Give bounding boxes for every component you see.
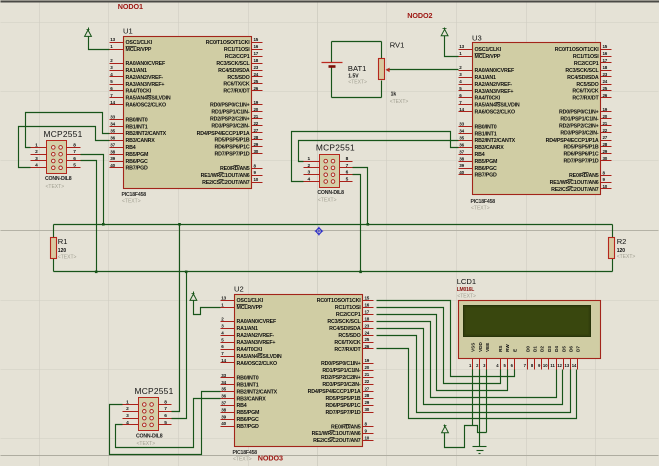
- svg-text:20: 20: [603, 114, 608, 119]
- svg-text:LM016L: LM016L: [457, 287, 475, 293]
- svg-text:R1: R1: [58, 237, 68, 246]
- svg-text:37: 37: [459, 149, 464, 154]
- svg-text:RD2/PSP2/C2IN+: RD2/PSP2/C2IN+: [210, 117, 250, 123]
- ground symbol: [473, 447, 487, 454]
- svg-text:U2: U2: [234, 285, 244, 294]
- wire junction: [102, 223, 105, 226]
- svg-text:25: 25: [254, 79, 259, 84]
- BAT1 value label 1.5V: [348, 73, 359, 79]
- svg-text:14: 14: [221, 358, 226, 363]
- svg-text:RD6/PSP6/P1C: RD6/PSP6/P1C: [215, 145, 250, 151]
- CAN transceiver MCP2551 #1 (CONN-DIL8): [31, 129, 83, 190]
- wire R2 top lead: [612, 225, 614, 238]
- svg-text:RB2/INT2/CANTX: RB2/INT2/CANTX: [237, 389, 278, 395]
- wire VCC to U2 MCLR: [194, 301, 221, 315]
- svg-text:RD2/PSP2/C2IN+: RD2/PSP2/C2IN+: [559, 124, 599, 130]
- svg-text:8: 8: [164, 399, 167, 405]
- svg-text:7: 7: [164, 406, 167, 412]
- svg-text:10: 10: [365, 435, 370, 440]
- svg-text:RC2/CCP1: RC2/CCP1: [574, 61, 599, 67]
- node label NODO1: [118, 2, 143, 11]
- svg-text:1.5V: 1.5V: [348, 73, 359, 79]
- svg-text:RB3/CANRX: RB3/CANRX: [126, 138, 156, 144]
- svg-text:<TEXT>: <TEXT>: [617, 254, 636, 260]
- microcontroller U3 PIC18F458: [459, 33, 612, 211]
- svg-text:RD5/PSP5/P1B: RD5/PSP5/P1B: [326, 396, 361, 402]
- svg-text:PIC18F458: PIC18F458: [471, 199, 496, 205]
- svg-text:3: 3: [307, 170, 310, 176]
- svg-text:14: 14: [459, 107, 464, 112]
- svg-text:RD7/PSP7/P1D: RD7/PSP7/P1D: [564, 159, 599, 165]
- svg-text:RA6/OSC2/CLKO: RA6/OSC2/CLKO: [126, 103, 166, 109]
- svg-text:7: 7: [346, 163, 349, 169]
- svg-text:<TEXT>: <TEXT>: [471, 206, 490, 212]
- svg-text:120: 120: [617, 248, 626, 254]
- svg-text:2: 2: [307, 163, 310, 169]
- svg-text:RD3/PSP3/C2IN-: RD3/PSP3/C2IN-: [322, 382, 361, 388]
- svg-text:CONN-DIL8: CONN-DIL8: [136, 433, 163, 439]
- svg-text:35: 35: [221, 387, 226, 392]
- svg-text:40: 40: [221, 421, 226, 426]
- wire CAN bus rail CANL: [54, 271, 613, 273]
- svg-text:D3: D3: [547, 346, 552, 352]
- svg-text:RA4/T0CKI: RA4/T0CKI: [475, 96, 501, 102]
- svg-text:RD7/PSP7/P1D: RD7/PSP7/P1D: [215, 152, 250, 158]
- svg-text:OSC1/CLKI: OSC1/CLKI: [475, 47, 502, 53]
- svg-text:33: 33: [459, 122, 464, 127]
- svg-text:36: 36: [459, 142, 464, 147]
- svg-text:2: 2: [35, 149, 38, 155]
- svg-text:RA1/AN1: RA1/AN1: [475, 75, 497, 81]
- svg-text:RB1/INT1: RB1/INT1: [126, 124, 148, 130]
- wire MCP2 RXD to U3 RB3/CANRX: [292, 132, 459, 182]
- svg-text:34: 34: [459, 129, 464, 134]
- wire U2 RC0/T1OSO/T1CKI to LCD E: [377, 301, 515, 377]
- wire MCP2 CANH to bus: [353, 168, 368, 225]
- microcontroller U2 PIC18F458: [221, 285, 374, 463]
- wire MCP1 CANL to bus: [81, 161, 97, 272]
- wire U2 RC4/SDI/SDA to LCD D5: [377, 329, 563, 405]
- power symbol VCC arrow: [442, 425, 449, 433]
- wire battery negative lead: [331, 68, 333, 98]
- svg-text:RB5/PGM: RB5/PGM: [237, 410, 261, 416]
- wire CAN bus rail CANH: [54, 224, 613, 226]
- svg-text:36: 36: [221, 394, 226, 399]
- svg-text:33: 33: [221, 373, 226, 378]
- wire MCP2 CANL to bus: [353, 175, 361, 272]
- LCD display LCD1 LM016L: [459, 301, 601, 370]
- svg-text:CONN-DIL8: CONN-DIL8: [45, 176, 72, 182]
- svg-text:20: 20: [254, 107, 259, 112]
- svg-text:34: 34: [110, 122, 115, 127]
- svg-text:MCLR/VPP: MCLR/VPP: [126, 47, 152, 53]
- wire RV1 bottom lead: [381, 81, 383, 98]
- svg-text:<TEXT>: <TEXT>: [348, 80, 367, 86]
- svg-text:RB6/PGC: RB6/PGC: [237, 417, 260, 423]
- svg-text:RB0/INT0: RB0/INT0: [237, 376, 259, 382]
- svg-text:RB2/INT2/CANTX: RB2/INT2/CANTX: [126, 131, 167, 137]
- wire battery loop top: [332, 41, 382, 43]
- svg-text:38: 38: [459, 156, 464, 161]
- svg-text:RA2/AN2/VREF-: RA2/AN2/VREF-: [475, 82, 513, 88]
- svg-text:RE0/RD/AN5: RE0/RD/AN5: [220, 166, 250, 172]
- svg-text:E: E: [512, 349, 517, 352]
- svg-text:RA1/AN1: RA1/AN1: [237, 326, 259, 332]
- svg-text:22: 22: [603, 128, 608, 133]
- RV1 reference label: [390, 40, 405, 49]
- power symbol VCC arrow: [441, 28, 448, 36]
- R1 value label 120: [58, 248, 67, 254]
- wire R1 top lead: [53, 225, 55, 238]
- wire MCP1 RXD to U1 RB3/CANRX: [19, 127, 110, 168]
- wire battery positive lead: [331, 42, 333, 63]
- svg-text:RC0/T1OSO/T1CKI: RC0/T1OSO/T1CKI: [555, 47, 600, 53]
- svg-text:RE2/CS/C2OUT/AN7: RE2/CS/C2OUT/AN7: [551, 187, 599, 193]
- svg-text:7: 7: [73, 149, 76, 155]
- svg-text:14: 14: [110, 100, 115, 105]
- wire R1 bottom lead: [53, 259, 55, 272]
- svg-text:RC5/SDO: RC5/SDO: [576, 82, 598, 88]
- svg-text:16: 16: [365, 302, 370, 307]
- svg-text:RD6/PSP6/P1C: RD6/PSP6/P1C: [326, 403, 361, 409]
- svg-text:VEE: VEE: [485, 343, 490, 352]
- svg-text:29: 29: [254, 142, 259, 147]
- svg-text:6: 6: [346, 170, 349, 176]
- svg-text:RC1/T1OSI: RC1/T1OSI: [573, 54, 599, 60]
- svg-text:17: 17: [603, 58, 608, 63]
- svg-text:18: 18: [603, 65, 608, 70]
- wire junction: [359, 271, 362, 274]
- svg-text:D1: D1: [533, 346, 538, 352]
- svg-text:38: 38: [221, 408, 226, 413]
- svg-text:D6: D6: [569, 346, 574, 352]
- svg-text:RD1/PSP1/C1IN-: RD1/PSP1/C1IN-: [211, 110, 250, 116]
- wire U2 RC7/RX/DT to LCD D7: [377, 349, 577, 419]
- power symbol VCC arrow: [85, 28, 92, 37]
- svg-text:27: 27: [254, 128, 259, 133]
- svg-text:RE1/WR/C1OUT/AN6: RE1/WR/C1OUT/AN6: [201, 173, 250, 179]
- svg-text:RC0/T1OSO/T1CKI: RC0/T1OSO/T1CKI: [317, 298, 362, 304]
- svg-text:RA1/AN1: RA1/AN1: [126, 68, 148, 74]
- wire MCP3 TXD to U2 RB2/CANTX: [110, 392, 221, 455]
- svg-text:30: 30: [603, 156, 608, 161]
- svg-text:RC6/TX/CK: RC6/TX/CK: [223, 82, 250, 88]
- svg-text:RC1/T1OSI: RC1/T1OSI: [224, 47, 250, 53]
- svg-text:RB4: RB4: [237, 403, 247, 409]
- wire MCP3 CANL to bus: [172, 272, 187, 419]
- svg-text:RB3/CANRX: RB3/CANRX: [475, 145, 505, 151]
- svg-text:24: 24: [603, 79, 608, 84]
- svg-text:OSC1/CLKI: OSC1/CLKI: [126, 40, 153, 46]
- svg-text:BAT1: BAT1: [348, 64, 366, 73]
- svg-text:RB2/INT2/CANTX: RB2/INT2/CANTX: [475, 138, 516, 144]
- svg-text:23: 23: [365, 323, 370, 328]
- wire junction: [185, 271, 188, 274]
- svg-text:RA4/T0CKI: RA4/T0CKI: [237, 347, 263, 353]
- svg-text:OSC1/CLKI: OSC1/CLKI: [237, 298, 264, 304]
- svg-text:RA4/T0CKI: RA4/T0CKI: [126, 89, 152, 95]
- svg-text:18: 18: [365, 316, 370, 321]
- svg-text:RD4/PSP4/ECCP1/P1A: RD4/PSP4/ECCP1/P1A: [308, 389, 361, 395]
- svg-text:<TEXT>: <TEXT>: [457, 294, 476, 300]
- svg-text:13: 13: [221, 295, 226, 300]
- svg-text:RD0/PSP0/C1IN+: RD0/PSP0/C1IN+: [559, 110, 599, 116]
- svg-text:RA2/AN2/VREF-: RA2/AN2/VREF-: [126, 75, 164, 81]
- svg-text:MCP2551: MCP2551: [135, 386, 174, 396]
- svg-text:15: 15: [254, 37, 259, 42]
- wire U2 RC2/CCP1 to LCD RW: [377, 315, 508, 391]
- svg-text:RE2/CS/C2OUT/AN7: RE2/CS/C2OUT/AN7: [202, 180, 250, 186]
- RV1 text label: [390, 99, 409, 105]
- svg-text:26: 26: [603, 93, 608, 98]
- svg-text:RC3/SCK/SCL: RC3/SCK/SCL: [327, 319, 361, 325]
- svg-text:25: 25: [365, 337, 370, 342]
- svg-text:22: 22: [254, 121, 259, 126]
- svg-text:21: 21: [365, 372, 370, 377]
- R1 text label: [58, 254, 77, 260]
- svg-text:18: 18: [254, 58, 259, 63]
- svg-text:RB5/PGM: RB5/PGM: [475, 159, 499, 165]
- svg-text:RB1/INT1: RB1/INT1: [237, 383, 259, 389]
- svg-text:RD4/PSP4/ECCP1/P1A: RD4/PSP4/ECCP1/P1A: [197, 131, 250, 137]
- svg-text:22: 22: [365, 379, 370, 384]
- svg-text:D7: D7: [576, 346, 581, 352]
- svg-text:RC7/RX/DT: RC7/RX/DT: [223, 89, 250, 95]
- svg-text:RB7/PGD: RB7/PGD: [475, 173, 498, 179]
- svg-text:14: 14: [572, 363, 577, 368]
- wire junction: [367, 223, 370, 226]
- svg-text:U1: U1: [123, 26, 133, 35]
- BAT1 text label: [348, 80, 367, 86]
- svg-text:11: 11: [550, 363, 555, 368]
- svg-text:RD4/PSP4/ECCP1/P1A: RD4/PSP4/ECCP1/P1A: [546, 138, 599, 144]
- svg-text:28: 28: [365, 393, 370, 398]
- svg-text:26: 26: [254, 86, 259, 91]
- svg-text:1k: 1k: [391, 92, 397, 98]
- svg-text:RD0/PSP0/C1IN+: RD0/PSP0/C1IN+: [321, 361, 361, 367]
- svg-text:RE1/WR/C1OUT/AN6: RE1/WR/C1OUT/AN6: [550, 180, 599, 186]
- svg-text:39: 39: [221, 414, 226, 419]
- svg-text:RD6/PSP6/P1C: RD6/PSP6/P1C: [564, 152, 599, 158]
- svg-text:MCP2551: MCP2551: [316, 143, 355, 153]
- svg-text:29: 29: [603, 149, 608, 154]
- svg-text:RS: RS: [498, 346, 503, 352]
- svg-text:RD7/PSP7/P1D: RD7/PSP7/P1D: [326, 410, 361, 416]
- battery BAT1: [322, 63, 343, 67]
- svg-text:RD5/PSP5/P1B: RD5/PSP5/P1B: [215, 138, 250, 144]
- svg-text:<TEXT>: <TEXT>: [318, 198, 337, 204]
- R2 value label 120: [617, 248, 626, 254]
- svg-text:6: 6: [73, 156, 76, 162]
- wire U2 RC5/SDO to LCD D6: [377, 336, 571, 413]
- svg-text:8: 8: [346, 156, 349, 162]
- BAT1 reference label: [348, 64, 366, 73]
- svg-text:25: 25: [603, 86, 608, 91]
- svg-text:27: 27: [365, 386, 370, 391]
- svg-text:RA5/AN4/SS/LVDIN: RA5/AN4/SS/LVDIN: [475, 103, 520, 109]
- svg-text:RC2/CCP1: RC2/CCP1: [336, 312, 361, 318]
- svg-text:RB1/INT1: RB1/INT1: [475, 131, 497, 137]
- svg-text:36: 36: [110, 135, 115, 140]
- svg-text:CONN-DIL8: CONN-DIL8: [317, 190, 344, 196]
- svg-text:40: 40: [110, 163, 115, 168]
- wire VCC to U1 MCLR: [89, 37, 110, 50]
- svg-text:RV1: RV1: [390, 40, 405, 49]
- svg-text:26: 26: [365, 344, 370, 349]
- wire LCD VSS down: [472, 370, 474, 426]
- svg-text:RA3/AN3/VREF+: RA3/AN3/VREF+: [237, 340, 276, 346]
- svg-text:4: 4: [307, 176, 310, 182]
- svg-text:RA6/OSC2/CLKO: RA6/OSC2/CLKO: [237, 361, 277, 367]
- wire MCP3 RXD to U2 RB3/CANRX: [116, 399, 221, 448]
- wire VCC to U3 MCLR: [445, 36, 459, 57]
- svg-text:13: 13: [459, 44, 464, 49]
- svg-text:RC6/TX/CK: RC6/TX/CK: [334, 340, 361, 346]
- svg-text:15: 15: [365, 295, 370, 300]
- LCD1 reference label: [457, 277, 476, 286]
- CAN transceiver MCP2551 #3 (CONN-DIL8): [123, 386, 174, 447]
- svg-text:4: 4: [35, 163, 38, 169]
- wire MCP2 TXD to U3 RB2/CANTX: [299, 141, 459, 162]
- svg-text:VSS: VSS: [471, 343, 476, 352]
- svg-text:27: 27: [603, 135, 608, 140]
- R1 reference label: [58, 237, 68, 246]
- svg-text:23: 23: [254, 65, 259, 70]
- svg-text:39: 39: [110, 156, 115, 161]
- svg-text:RW: RW: [505, 344, 510, 352]
- svg-text:RC4/SDI/SDA: RC4/SDI/SDA: [567, 75, 599, 81]
- svg-text:1: 1: [35, 142, 38, 148]
- svg-text:RE1/WR/C1OUT/AN6: RE1/WR/C1OUT/AN6: [312, 431, 361, 437]
- svg-text:RB7/PGD: RB7/PGD: [126, 166, 149, 172]
- svg-text:RC0/T1OSO/T1CKI: RC0/T1OSO/T1CKI: [206, 40, 251, 46]
- svg-text:PIC18F458: PIC18F458: [122, 192, 147, 198]
- svg-text:5: 5: [73, 163, 76, 169]
- svg-text:16: 16: [254, 44, 259, 49]
- svg-text:D0: D0: [525, 346, 530, 352]
- svg-text:VDD: VDD: [478, 342, 483, 352]
- svg-text:RC1/T1OSI: RC1/T1OSI: [335, 305, 361, 311]
- svg-text:D4: D4: [554, 346, 559, 352]
- svg-text:R2: R2: [617, 237, 627, 246]
- svg-text:RB5/PGM: RB5/PGM: [126, 152, 150, 158]
- svg-text:<TEXT>: <TEXT>: [58, 254, 77, 260]
- svg-text:24: 24: [254, 72, 259, 77]
- svg-text:RE0/RD/AN5: RE0/RD/AN5: [569, 173, 599, 179]
- node label NODO2: [407, 11, 432, 20]
- svg-text:15: 15: [603, 44, 608, 49]
- svg-text:<TEXT>: <TEXT>: [233, 457, 252, 463]
- svg-text:NODO1: NODO1: [118, 2, 143, 11]
- svg-text:RC7/RX/DT: RC7/RX/DT: [572, 96, 599, 102]
- svg-text:RC4/SDI/SDA: RC4/SDI/SDA: [329, 326, 361, 332]
- svg-text:34: 34: [221, 380, 226, 385]
- svg-text:28: 28: [254, 135, 259, 140]
- svg-text:30: 30: [365, 407, 370, 412]
- svg-text:RC5/SDO: RC5/SDO: [227, 75, 249, 81]
- svg-text:30: 30: [254, 149, 259, 154]
- svg-text:<TEXT>: <TEXT>: [137, 441, 156, 447]
- svg-text:29: 29: [365, 400, 370, 405]
- svg-text:RA2/AN2/VREF-: RA2/AN2/VREF-: [237, 333, 275, 339]
- svg-text:MCLR/VPP: MCLR/VPP: [475, 54, 501, 60]
- wire LCD VDD to ground: [479, 370, 481, 447]
- svg-text:RC4/SDI/SDA: RC4/SDI/SDA: [218, 68, 250, 74]
- svg-text:RA0/AN0/CVREF: RA0/AN0/CVREF: [475, 68, 515, 74]
- wire RV1 wiper to U3 RA0/AN0: [387, 69, 459, 71]
- svg-text:2: 2: [126, 406, 129, 412]
- svg-text:RB4: RB4: [475, 152, 485, 158]
- svg-text:21: 21: [254, 114, 259, 119]
- wire MCP3 CANH to bus: [172, 225, 180, 412]
- node label NODO3: [258, 453, 283, 462]
- wire battery loop bottom: [332, 97, 382, 99]
- wire U2 RC1/T1OSI to LCD RS: [377, 308, 501, 384]
- svg-text:10: 10: [603, 184, 608, 189]
- svg-text:RD0/PSP0/C1IN+: RD0/PSP0/C1IN+: [210, 103, 250, 109]
- svg-text:1: 1: [126, 399, 129, 405]
- svg-text:RD5/PSP5/P1B: RD5/PSP5/P1B: [564, 145, 599, 151]
- svg-text:37: 37: [221, 401, 226, 406]
- wire VCC to LCD power net staircase: [445, 426, 487, 448]
- svg-text:6: 6: [164, 413, 167, 419]
- svg-text:37: 37: [110, 142, 115, 147]
- wire MCP1 TXD to U1 RB2/CANTX: [26, 113, 110, 148]
- svg-text:RD3/PSP3/C2IN-: RD3/PSP3/C2IN-: [211, 124, 250, 130]
- resistor R2: [609, 238, 615, 259]
- wire junction: [178, 223, 181, 226]
- svg-text:23: 23: [603, 72, 608, 77]
- svg-text:13: 13: [565, 363, 570, 368]
- svg-text:RC2/CCP1: RC2/CCP1: [225, 54, 250, 60]
- svg-text:RB0/INT0: RB0/INT0: [126, 117, 148, 123]
- svg-text:28: 28: [603, 142, 608, 147]
- svg-text:RD2/PSP2/C2IN+: RD2/PSP2/C2IN+: [321, 375, 361, 381]
- svg-text:5: 5: [346, 176, 349, 182]
- svg-text:RB7/PGD: RB7/PGD: [237, 424, 260, 430]
- svg-text:D2: D2: [540, 346, 545, 352]
- svg-text:RA3/AN3/VREF+: RA3/AN3/VREF+: [475, 89, 514, 95]
- svg-text:RB4: RB4: [126, 145, 136, 151]
- svg-text:NODO2: NODO2: [407, 11, 432, 20]
- svg-text:RA0/AN0/CVREF: RA0/AN0/CVREF: [126, 61, 166, 67]
- svg-text:10: 10: [254, 177, 259, 182]
- svg-text:16: 16: [603, 51, 608, 56]
- RV1 value label 1k: [391, 92, 397, 98]
- wire MCP1 CANH to bus: [81, 155, 104, 225]
- svg-text:MCLR/VPP: MCLR/VPP: [237, 305, 263, 311]
- svg-text:10: 10: [543, 363, 548, 368]
- wire LCD VEE down: [486, 370, 488, 433]
- svg-text:120: 120: [58, 248, 67, 254]
- svg-text:RA3/AN3/VREF+: RA3/AN3/VREF+: [126, 82, 165, 88]
- svg-text:19: 19: [603, 107, 608, 112]
- svg-text:RD3/PSP3/C2IN-: RD3/PSP3/C2IN-: [560, 131, 599, 137]
- svg-text:1: 1: [307, 156, 310, 162]
- LCD1 part label LM016L: [457, 287, 475, 293]
- svg-text:35: 35: [459, 136, 464, 141]
- svg-text:24: 24: [365, 330, 370, 335]
- svg-text:40: 40: [459, 170, 464, 175]
- resistor R1: [51, 238, 57, 259]
- R2 text label: [617, 254, 636, 260]
- svg-text:19: 19: [254, 100, 259, 105]
- svg-text:35: 35: [110, 129, 115, 134]
- svg-text:8: 8: [73, 142, 76, 148]
- wire R2 bottom lead: [612, 259, 614, 272]
- svg-text:NODO3: NODO3: [258, 453, 283, 462]
- sheet origin marker: [315, 227, 324, 236]
